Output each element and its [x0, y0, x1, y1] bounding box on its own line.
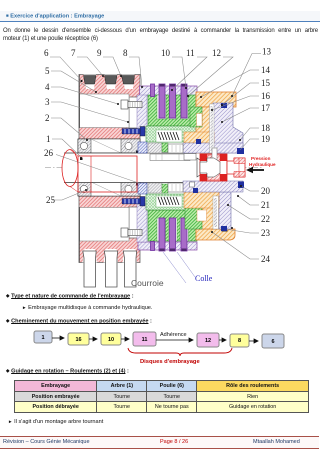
svg-text:Colle: Colle — [195, 274, 213, 283]
svg-text:2: 2 — [45, 113, 50, 123]
svg-text:9: 9 — [97, 48, 102, 58]
svg-text:6: 6 — [271, 339, 274, 345]
svg-text:23: 23 — [261, 228, 271, 238]
svg-text:10: 10 — [161, 48, 171, 58]
svg-text:10: 10 — [108, 337, 114, 343]
svg-text:Hydraulique: Hydraulique — [249, 162, 276, 167]
svg-text:Disques d'embrayage: Disques d'embrayage — [140, 359, 200, 365]
svg-text:11: 11 — [142, 337, 148, 343]
svg-text:8: 8 — [238, 338, 241, 344]
svg-text:16: 16 — [75, 337, 81, 343]
svg-text:18: 18 — [261, 123, 271, 133]
svg-text:Pression: Pression — [251, 156, 271, 161]
svg-text:5: 5 — [45, 66, 50, 76]
svg-text:4: 4 — [45, 82, 50, 92]
svg-text:26: 26 — [44, 148, 54, 158]
svg-text:11: 11 — [186, 48, 195, 58]
svg-text:12: 12 — [205, 338, 211, 344]
svg-text:12: 12 — [212, 48, 221, 58]
svg-text:14: 14 — [261, 65, 271, 75]
svg-text:16: 16 — [261, 91, 271, 101]
svg-text:15: 15 — [261, 78, 271, 88]
svg-text:21: 21 — [261, 200, 270, 210]
svg-text:22: 22 — [261, 214, 270, 224]
svg-text:6: 6 — [44, 48, 49, 58]
svg-text:7: 7 — [71, 48, 76, 58]
svg-text:17: 17 — [261, 103, 271, 113]
svg-text:20: 20 — [261, 186, 271, 196]
svg-text:Courroie: Courroie — [131, 278, 164, 288]
svg-text:1: 1 — [46, 134, 51, 144]
svg-text:19: 19 — [261, 134, 271, 144]
svg-text:1: 1 — [41, 335, 44, 341]
svg-text:24: 24 — [261, 254, 271, 264]
svg-text:8: 8 — [123, 48, 128, 58]
svg-text:3: 3 — [45, 97, 50, 107]
svg-text:13: 13 — [262, 47, 272, 57]
svg-text:Adhérence: Adhérence — [160, 332, 187, 338]
